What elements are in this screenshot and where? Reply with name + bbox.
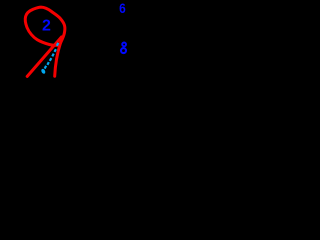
red lasso loop [25,7,65,45]
blue label 8 [121,43,126,54]
cyan dashed trace [45,43,59,69]
red tail line left [27,37,61,76]
red tail line right [55,44,61,77]
svg-text:6: 6 [119,0,126,16]
svg-text:2: 2 [42,18,51,35]
cyan teardrop end blob [40,68,46,74]
